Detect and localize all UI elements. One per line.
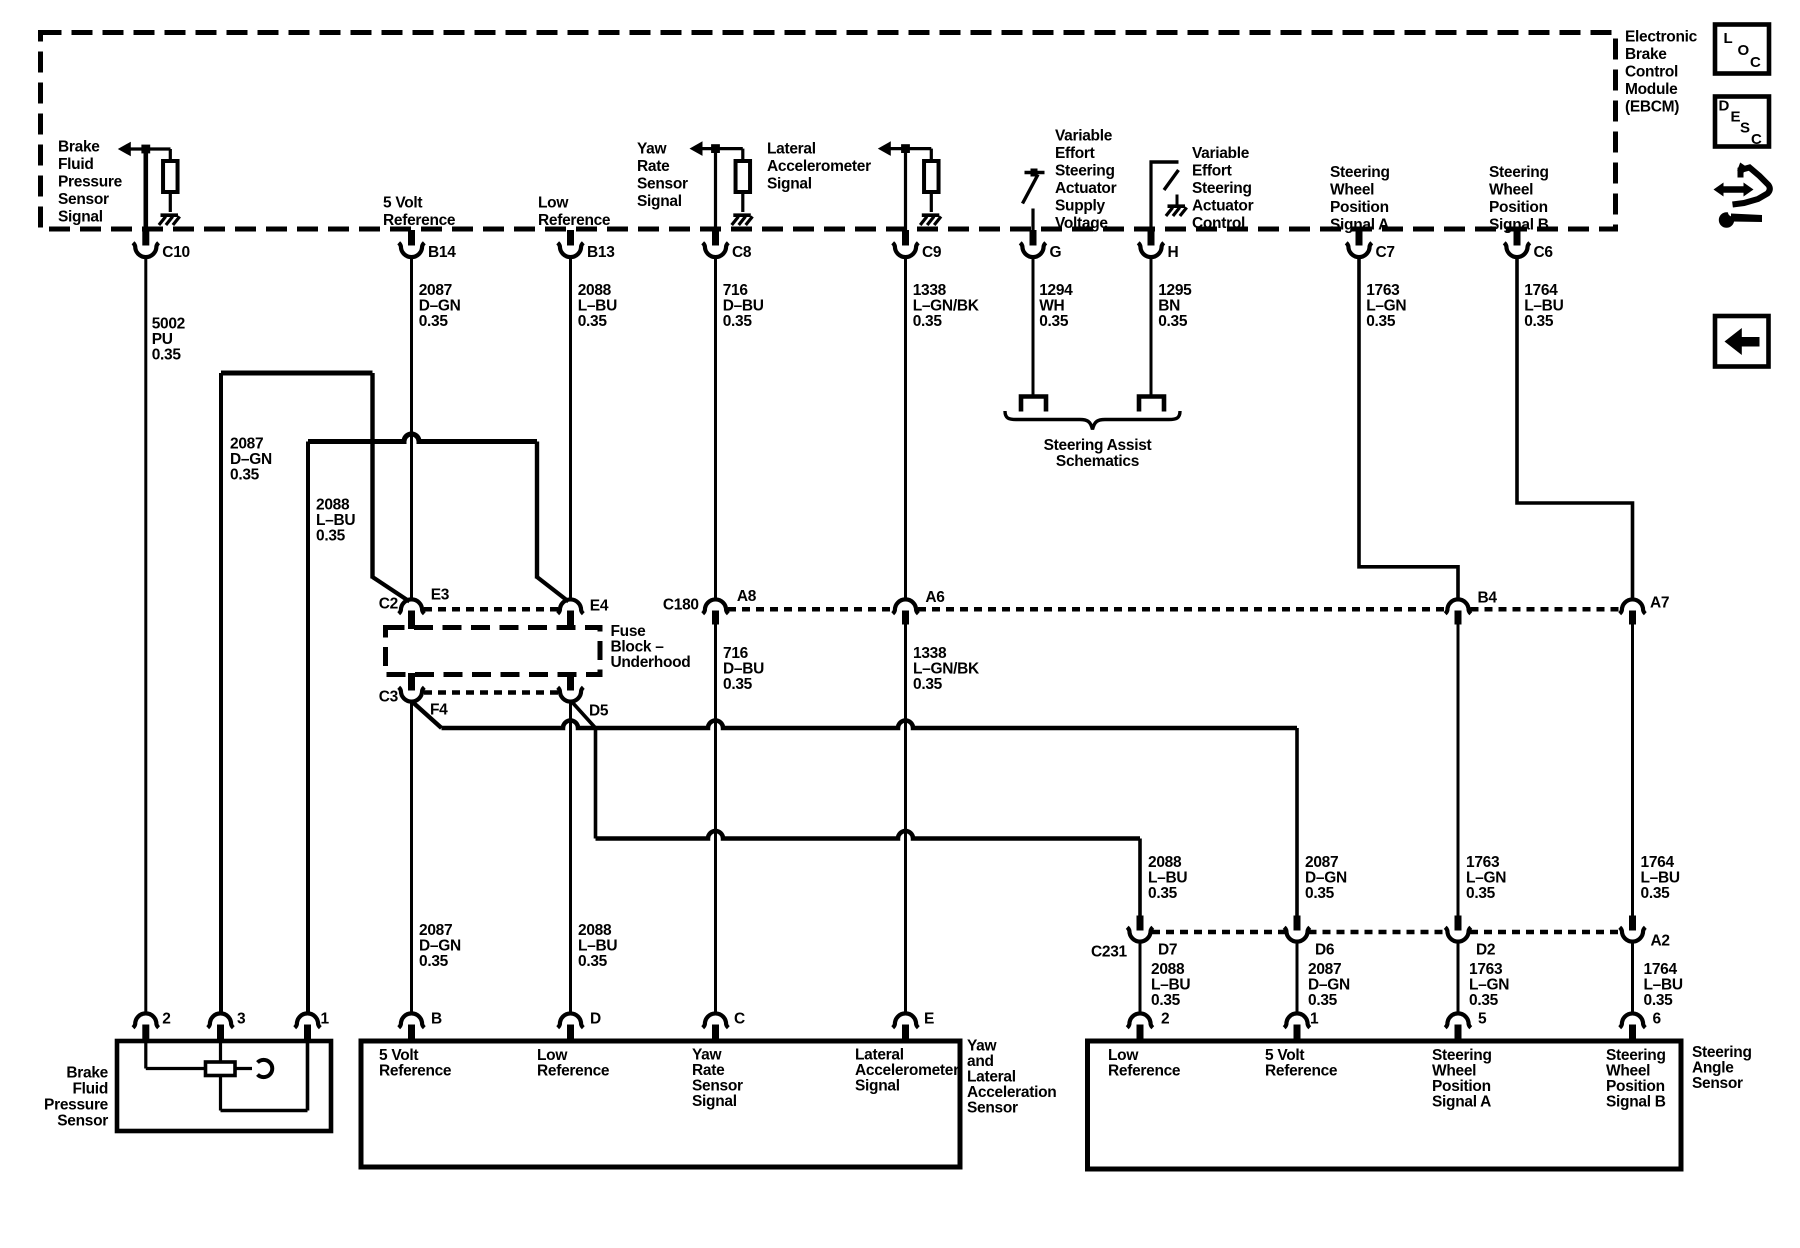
svg-text:Voltage: Voltage — [1055, 215, 1108, 232]
brake sensor element lead to port — [235, 1067, 252, 1070]
svg-text:Sensor: Sensor — [967, 1100, 1018, 1117]
svg-text:1763: 1763 — [1366, 282, 1400, 299]
wire - B13 to fuse E4 — [569, 258, 572, 600]
brake sensor port arc — [258, 1060, 273, 1077]
wire 1338 L-GN/BK - C9 to C180 A6 — [904, 258, 907, 600]
wire - yaw resistor lead — [741, 149, 744, 162]
svg-text:Steering: Steering — [1692, 1044, 1752, 1061]
C231 connector pin D7 — [1137, 916, 1144, 931]
svg-text:Pressure: Pressure — [58, 174, 123, 191]
dotted connector line D2-A2 — [1470, 930, 1621, 935]
connector B4 (C180) — [1445, 599, 1471, 613]
svg-text:Position: Position — [1330, 199, 1389, 216]
wire - yaw signal arrow to resistor branch — [702, 147, 743, 150]
fuse connector E4 — [558, 599, 584, 613]
svg-text:Lateral: Lateral — [855, 1047, 904, 1064]
svg-text:Signal: Signal — [58, 209, 103, 226]
junction dot at C10 wire — [141, 145, 150, 154]
yaw rate sensor signal arrow — [690, 141, 703, 156]
wire - C8 drop inside EBCM — [714, 149, 717, 231]
wire - resistor to ground — [169, 192, 172, 212]
svg-text:D–GN: D–GN — [1308, 977, 1350, 994]
svg-text:0.35: 0.35 — [913, 313, 943, 330]
wire 2088 L-BU - diagonal into E4 — [537, 577, 569, 602]
svg-text:Signal B: Signal B — [1606, 1094, 1666, 1111]
svg-text:Reference: Reference — [383, 212, 456, 229]
svg-text:Sensor: Sensor — [637, 176, 688, 193]
svg-text:L–BU: L–BU — [1524, 298, 1563, 315]
svg-text:0.35: 0.35 — [419, 313, 449, 330]
svg-text:Lateral: Lateral — [967, 1069, 1016, 1086]
svg-text:2088: 2088 — [1151, 961, 1185, 978]
svg-text:D–BU: D–BU — [723, 298, 764, 315]
svg-text:Sensor: Sensor — [58, 191, 109, 208]
variable actuator control switch symbol (pin H) — [1149, 161, 1152, 232]
svg-text:Variable: Variable — [1055, 128, 1113, 145]
svg-text:L–BU: L–BU — [316, 512, 355, 529]
brake sensor internal wire pin1 — [221, 1109, 308, 1113]
svg-text:0.35: 0.35 — [578, 313, 608, 330]
svg-text:D: D — [1719, 98, 1730, 115]
svg-text:Supply: Supply — [1055, 198, 1106, 215]
sensor connector pin E at x=905.5 — [893, 1013, 919, 1027]
svg-text:1338: 1338 — [913, 645, 947, 662]
wire 1338 L-GN/BK - A6 to yaw sensor pin E — [904, 624, 907, 1014]
svg-text:Reference: Reference — [1108, 1063, 1181, 1080]
svg-text:0.35: 0.35 — [1366, 313, 1396, 330]
sensor connector pin 3 at x=220.5 — [208, 1013, 234, 1027]
svg-text:0.35: 0.35 — [1151, 992, 1181, 1009]
svg-text:D: D — [590, 1011, 601, 1028]
svg-text:C2: C2 — [379, 596, 398, 613]
svg-text:D–GN: D–GN — [419, 938, 461, 955]
svg-text:L–GN/BK: L–GN/BK — [913, 661, 980, 678]
svg-text:Wheel: Wheel — [1606, 1063, 1650, 1080]
svg-text:Signal: Signal — [692, 1093, 737, 1110]
resistor (lateral signal pull-up) — [924, 161, 939, 192]
sensor connector pin 5 at x=1458 — [1445, 1013, 1471, 1027]
svg-text:O: O — [1738, 42, 1750, 59]
svg-text:Steering: Steering — [1606, 1047, 1666, 1064]
ground symbol (actuator control) — [1168, 204, 1186, 208]
svg-text:2087: 2087 — [419, 922, 452, 939]
svg-text:L–BU: L–BU — [578, 298, 617, 315]
svg-text:0.35: 0.35 — [1641, 885, 1671, 902]
sensor connector pin 2 at x=145.8 — [133, 1013, 159, 1027]
resistor (brake signal pull-up) — [163, 161, 178, 192]
C231 connector pin D2 — [1455, 916, 1462, 931]
svg-text:D2: D2 — [1476, 942, 1495, 959]
wire 2087 D-GN - D6 to steering sensor pin 1 — [1296, 942, 1299, 1014]
junction dot at C8 wire — [711, 144, 720, 153]
svg-text:B: B — [431, 1011, 442, 1028]
svg-text:Pressure: Pressure — [44, 1097, 109, 1114]
wire 2088 L-BU - D5 to yaw sensor pin D — [569, 703, 572, 1014]
svg-text:Steering: Steering — [1330, 164, 1390, 181]
svg-text:Rate: Rate — [637, 158, 670, 175]
steering assist connector fork (H wire) — [1139, 397, 1164, 412]
svg-text:D–BU: D–BU — [723, 661, 764, 678]
svg-text:and: and — [967, 1053, 994, 1070]
svg-text:C180: C180 — [663, 597, 699, 614]
wire 2087 D-GN - F4 horizontal run to D6 — [442, 721, 1298, 728]
svg-text:Signal: Signal — [637, 193, 682, 210]
svg-text:0.35: 0.35 — [913, 676, 943, 693]
fuse connector D5 — [567, 673, 574, 691]
svg-text:2087: 2087 — [1308, 961, 1341, 978]
wire - brake signal arrow to resistor branch — [131, 147, 171, 150]
svg-text:L–GN/BK: L–GN/BK — [913, 298, 980, 315]
svg-text:Low: Low — [537, 1047, 568, 1064]
svg-text:5 Volt: 5 Volt — [383, 195, 422, 212]
dotted connector line A6-B4 — [918, 607, 1446, 612]
EBCM connector pin G — [1030, 230, 1037, 246]
svg-text:BN: BN — [1158, 298, 1180, 315]
wire 2088 L-BU branch - horizontal link to brake sensor pin 1 — [308, 434, 537, 442]
ground symbol (brake signal) — [161, 213, 179, 217]
svg-text:5 Volt: 5 Volt — [1265, 1047, 1304, 1064]
fuse connector C3 — [408, 673, 415, 691]
svg-text:0.35: 0.35 — [723, 676, 753, 693]
brace for steering assist schematics — [1005, 411, 1180, 430]
wire 2087 D-GN - vertical to E3 diagonal — [370, 373, 374, 579]
svg-text:2: 2 — [162, 1011, 170, 1028]
svg-text:Sensor: Sensor — [692, 1078, 743, 1095]
dotted connector line C3-D5 — [424, 690, 558, 695]
EBCM connector pin C10 — [142, 230, 149, 246]
svg-text:1: 1 — [1310, 1011, 1319, 1028]
wire - yaw resistor to ground — [741, 192, 744, 212]
EBCM connector pin C8 — [712, 230, 719, 246]
DESC icon box — [1715, 97, 1769, 147]
svg-text:0.35: 0.35 — [1305, 885, 1335, 902]
dotted connector line D7-D6 — [1152, 930, 1286, 935]
resistor (yaw signal pull-up) — [736, 161, 751, 192]
svg-text:2088: 2088 — [316, 497, 350, 514]
svg-text:C10: C10 — [162, 244, 190, 261]
svg-text:L–BU: L–BU — [1641, 870, 1680, 887]
svg-text:1763: 1763 — [1469, 961, 1503, 978]
svg-text:Signal: Signal — [855, 1078, 900, 1095]
svg-text:1764: 1764 — [1524, 282, 1558, 299]
svg-text:5002: 5002 — [152, 316, 185, 333]
svg-text:Steering: Steering — [1489, 164, 1549, 181]
svg-text:L–GN: L–GN — [1366, 298, 1406, 315]
svg-text:Low: Low — [538, 195, 569, 212]
svg-text:Reference: Reference — [1265, 1063, 1338, 1080]
svg-text:716: 716 — [723, 282, 749, 299]
wire 2087 D-GN - diagonal into E3 — [373, 577, 410, 602]
EBCM connector pin C7 — [1356, 230, 1363, 246]
sensor connector pin 1 at x=307.5 — [295, 1013, 321, 1027]
EBCM connector pin H — [1148, 230, 1155, 246]
wire 2088 L-BU - branch vertical to horizontal run — [594, 728, 598, 839]
sensor connector pin B at x=411.5 — [399, 1013, 425, 1027]
junction dot at C9 wire — [901, 144, 910, 153]
svg-text:D–GN: D–GN — [1305, 870, 1347, 887]
svg-text:Sensor: Sensor — [1692, 1075, 1743, 1092]
svg-text:D–GN: D–GN — [230, 451, 272, 468]
svg-text:Effort: Effort — [1192, 163, 1232, 180]
svg-text:2: 2 — [1161, 1011, 1169, 1028]
svg-text:L–BU: L–BU — [578, 938, 617, 955]
EBCM connector pin C9 — [902, 230, 909, 246]
svg-text:0.35: 0.35 — [419, 953, 449, 970]
svg-text:Module: Module — [1625, 81, 1678, 98]
svg-text:B13: B13 — [587, 244, 615, 261]
svg-text:Electronic: Electronic — [1625, 29, 1698, 46]
svg-text:Variable: Variable — [1192, 145, 1250, 162]
LOC icon box — [1715, 25, 1769, 74]
svg-text:D7: D7 — [1158, 942, 1177, 959]
wire 2088 L-BU - D5 diagonal branch — [572, 702, 596, 728]
svg-text:E3: E3 — [431, 587, 450, 604]
svg-text:A2: A2 — [1651, 933, 1670, 950]
sensor connector pin 2 at x=1140 — [1127, 1013, 1153, 1027]
EBCM connector pin B14 — [408, 230, 415, 246]
svg-text:Fluid: Fluid — [58, 156, 94, 173]
svg-text:6: 6 — [1653, 1011, 1662, 1028]
svg-text:L–GN: L–GN — [1469, 977, 1509, 994]
svg-text:0.35: 0.35 — [1644, 992, 1674, 1009]
svg-text:5 Volt: 5 Volt — [379, 1047, 418, 1064]
svg-text:0.35: 0.35 — [316, 528, 346, 545]
svg-text:F4: F4 — [430, 702, 448, 719]
svg-text:2088: 2088 — [578, 922, 612, 939]
svg-text:Sensor: Sensor — [57, 1113, 108, 1130]
svg-text:Position: Position — [1489, 199, 1548, 216]
back arrow icon box — [1715, 316, 1769, 367]
svg-text:Underhood: Underhood — [611, 654, 691, 671]
svg-text:Steering: Steering — [1432, 1047, 1492, 1064]
fuse block dashed box — [386, 628, 601, 675]
svg-text:C3: C3 — [379, 689, 399, 706]
connector A8 (C180) — [703, 599, 729, 613]
svg-text:Yaw: Yaw — [967, 1038, 998, 1055]
svg-text:Control: Control — [1625, 64, 1678, 81]
wire 716 D-BU - C8 to C180 A8 — [714, 258, 717, 600]
svg-text:Fluid: Fluid — [72, 1081, 108, 1098]
svg-text:(EBCM): (EBCM) — [1625, 99, 1679, 116]
svg-text:Brake: Brake — [66, 1065, 108, 1082]
svg-text:E4: E4 — [590, 598, 609, 615]
ground symbol (yaw signal) — [733, 213, 751, 217]
svg-text:Yaw: Yaw — [692, 1047, 723, 1064]
svg-text:L–BU: L–BU — [1148, 870, 1187, 887]
dotted connector line A8-A6 — [728, 607, 893, 612]
svg-text:1338: 1338 — [913, 282, 947, 299]
wire - B14 to fuse E3 — [410, 258, 413, 600]
svg-text:PU: PU — [152, 331, 173, 348]
svg-text:B14: B14 — [428, 244, 456, 261]
wire 1764 L-BU - A7 to C231 A2 — [1631, 624, 1634, 916]
svg-text:5: 5 — [1478, 1011, 1487, 1028]
svg-text:0.35: 0.35 — [1148, 885, 1178, 902]
sensor connector pin 1 at x=1297 — [1284, 1013, 1310, 1027]
C231 connector pin D6 — [1294, 916, 1301, 931]
wire - C10 drop inside EBCM — [144, 149, 149, 231]
svg-text:C: C — [734, 1011, 745, 1028]
brake sensor internal wire pin3 — [219, 1041, 222, 1111]
wire 2088 L-BU - vertical to E4 diagonal — [535, 442, 539, 579]
wire 5002 PU - C10 to brake sensor pin 2 — [144, 258, 147, 1014]
svg-text:Signal: Signal — [767, 176, 812, 193]
sensor connector pin D at x=570.5 — [558, 1013, 584, 1027]
svg-text:0.35: 0.35 — [723, 313, 753, 330]
wire 2087 D-GN branch - horizontal link to brake sensor pin 3 — [221, 371, 373, 376]
svg-text:Reference: Reference — [538, 212, 611, 229]
svg-text:Brake: Brake — [58, 139, 100, 156]
svg-text:Signal A: Signal A — [1432, 1094, 1491, 1111]
svg-text:C8: C8 — [732, 244, 752, 261]
svg-text:Steering: Steering — [1055, 163, 1115, 180]
steering assist connector fork (G wire) — [1021, 397, 1046, 412]
brake fluid pressure sensor signal arrow — [118, 142, 131, 157]
wire 1763 L-GN - B4 to C231 D2 — [1457, 624, 1460, 916]
svg-text:0.35: 0.35 — [1158, 313, 1188, 330]
wire 2088 L-BU - horizontal run to C231 D7 — [596, 831, 1141, 839]
svg-text:Fuse: Fuse — [611, 623, 647, 640]
brake sensor transducer element — [206, 1062, 236, 1076]
svg-text:Block –: Block – — [611, 639, 665, 656]
svg-text:0.35: 0.35 — [1039, 313, 1069, 330]
wire 2087 D-GN - vertical to brake sensor pin 3 — [219, 373, 223, 1014]
svg-text:Reference: Reference — [379, 1063, 452, 1080]
svg-text:C: C — [1750, 54, 1761, 71]
svg-text:A7: A7 — [1650, 595, 1669, 612]
wire 1295 BN - H to steering assist — [1150, 258, 1153, 396]
svg-text:S: S — [1740, 120, 1750, 137]
brake sensor internal wire pin2 — [144, 1041, 147, 1069]
svg-text:Accelerometer: Accelerometer — [855, 1062, 959, 1079]
wire - lateral resistor to ground — [930, 192, 933, 212]
wire - resistor lead down — [169, 149, 172, 162]
EBCM connector pin B13 — [567, 230, 574, 246]
wire 2088 L-BU - vertical to C231 D7 — [1138, 839, 1142, 917]
wire 1763 L-GN - D2 to steering sensor pin 5 — [1457, 942, 1460, 1014]
wire 2088 L-BU - D7 to steering sensor pin 2 — [1139, 942, 1142, 1014]
dotted connector line D6-D2 — [1309, 930, 1447, 935]
svg-text:D6: D6 — [1315, 942, 1335, 959]
svg-text:Effort: Effort — [1055, 145, 1095, 162]
dotted connector line E3-E4 — [424, 607, 558, 612]
EBCM connector pin C6 — [1514, 230, 1521, 246]
svg-text:716: 716 — [723, 645, 749, 662]
svg-text:Wheel: Wheel — [1330, 182, 1374, 199]
sensor connector pin 6 at x=1632.5 — [1620, 1013, 1646, 1027]
ground symbol (lateral signal) — [922, 213, 940, 217]
svg-text:C: C — [1751, 131, 1762, 148]
svg-text:Rate: Rate — [692, 1062, 725, 1079]
connector A6 (C180) — [893, 599, 919, 613]
svg-text:E: E — [924, 1011, 934, 1028]
svg-text:L–BU: L–BU — [1644, 977, 1683, 994]
svg-text:0.35: 0.35 — [1308, 992, 1338, 1009]
Yaw and Lateral Acceleration Sensor box — [361, 1041, 960, 1167]
EBCM module dashed outline box — [41, 33, 1616, 230]
svg-text:1763: 1763 — [1466, 854, 1500, 871]
svg-text:0.35: 0.35 — [1466, 885, 1496, 902]
svg-text:C9: C9 — [922, 244, 942, 261]
svg-text:1294: 1294 — [1039, 282, 1073, 299]
svg-text:E: E — [1731, 109, 1741, 126]
wire 2087 D-GN - vertical to C231 D6 — [1295, 728, 1299, 916]
svg-text:1: 1 — [321, 1011, 330, 1028]
svg-text:2087: 2087 — [419, 282, 452, 299]
svg-text:L–BU: L–BU — [1151, 977, 1190, 994]
svg-text:Control: Control — [1192, 215, 1245, 232]
Steering Angle Sensor box — [1088, 1041, 1682, 1169]
wire 2087 D-GN - C3 to yaw sensor pin B — [410, 703, 413, 1014]
variable actuator supply symbol (pin G) — [1031, 209, 1034, 232]
svg-text:H: H — [1168, 244, 1179, 261]
svg-text:Lateral: Lateral — [767, 141, 816, 158]
wire 1764 L-BU - A2 to steering sensor pin 6 — [1631, 942, 1634, 1014]
wire 2088 L-BU - vertical to brake sensor pin 1 — [306, 442, 310, 1014]
svg-text:Brake: Brake — [1625, 46, 1667, 63]
svg-text:C231: C231 — [1091, 944, 1128, 961]
svg-text:C7: C7 — [1376, 244, 1395, 261]
svg-text:Steering: Steering — [1192, 180, 1252, 197]
svg-text:Wheel: Wheel — [1432, 1063, 1476, 1080]
wire 2087 D-GN - C3/F4 diagonal — [413, 702, 442, 728]
svg-text:2088: 2088 — [578, 282, 612, 299]
svg-text:Position: Position — [1432, 1078, 1491, 1095]
wire - C9 drop inside EBCM — [904, 149, 907, 231]
svg-text:Steering Assist: Steering Assist — [1044, 437, 1152, 454]
C231 connector pin A2 — [1629, 916, 1636, 931]
svg-text:2087: 2087 — [230, 436, 263, 453]
lateral accelerometer signal arrow — [878, 141, 891, 156]
wire - lateral resistor lead — [930, 149, 933, 162]
connector A7 (C180) — [1620, 599, 1646, 613]
svg-text:D–GN: D–GN — [419, 298, 461, 315]
sensor connector pin C at x=715.5 — [703, 1013, 729, 1027]
svg-text:Yaw: Yaw — [637, 141, 668, 158]
wire - lateral signal arrow to resistor branch — [891, 147, 932, 150]
svg-text:0.35: 0.35 — [578, 953, 608, 970]
svg-text:1295: 1295 — [1158, 282, 1192, 299]
svg-text:B4: B4 — [1478, 590, 1498, 607]
svg-text:Schematics: Schematics — [1056, 453, 1139, 470]
svg-text:1764: 1764 — [1641, 854, 1675, 871]
svg-text:C6: C6 — [1534, 244, 1554, 261]
svg-text:0.35: 0.35 — [230, 467, 260, 484]
svg-text:2087: 2087 — [1305, 854, 1338, 871]
svg-text:Actuator: Actuator — [1055, 180, 1117, 197]
service-information icon (double arrow, bent arrow band, wrench) — [1714, 183, 1754, 197]
dotted connector line B4-A7 — [1471, 607, 1621, 612]
svg-text:G: G — [1050, 244, 1062, 261]
wire 1763 L-GN - C7 jog to B4 — [1359, 258, 1458, 600]
svg-text:A6: A6 — [925, 589, 945, 606]
svg-text:3: 3 — [237, 1011, 246, 1028]
svg-text:0.35: 0.35 — [1469, 992, 1499, 1009]
svg-text:D5: D5 — [589, 703, 609, 720]
svg-text:A8: A8 — [737, 588, 757, 605]
svg-text:0.35: 0.35 — [152, 347, 182, 364]
Brake Fluid Pressure Sensor box — [117, 1041, 331, 1131]
svg-text:2088: 2088 — [1148, 854, 1182, 871]
svg-text:Accelerometer: Accelerometer — [767, 158, 871, 175]
svg-text:L–GN: L–GN — [1466, 870, 1506, 887]
svg-text:Acceleration: Acceleration — [967, 1084, 1056, 1101]
svg-text:1764: 1764 — [1644, 961, 1678, 978]
svg-text:Wheel: Wheel — [1489, 182, 1533, 199]
svg-text:Low: Low — [1108, 1047, 1139, 1064]
svg-text:Angle: Angle — [1692, 1060, 1734, 1077]
svg-text:Reference: Reference — [537, 1063, 610, 1080]
